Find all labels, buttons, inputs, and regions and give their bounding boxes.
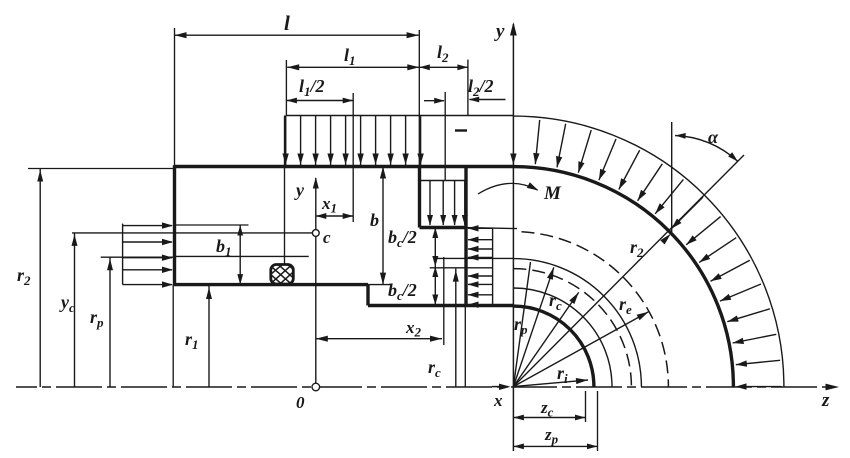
flange edge extension to axis	[172, 285, 174, 387]
steep fan line	[513, 262, 530, 387]
right load arrow 7	[468, 294, 493, 296]
radial load arrow 15	[733, 334, 777, 343]
point c circle	[312, 230, 319, 237]
right load arrow 3	[468, 248, 493, 250]
radial load arrow 16	[736, 360, 780, 364]
notch load arrow 2	[442, 181, 444, 226]
dimension l2/2 right arrow	[470, 99, 506, 101]
right load arrow 5	[468, 275, 493, 277]
svg-text:y: y	[494, 21, 505, 42]
radius ri arrow	[513, 380, 588, 387]
alpha arc arrowheads	[675, 133, 686, 139]
ext line l1 left	[285, 60, 287, 115]
svg-text:α: α	[708, 127, 719, 147]
moment M arc	[478, 183, 538, 194]
left load tails envelope	[122, 224, 124, 285]
dimension r2 left	[39, 169, 41, 388]
svg-text:y: y	[294, 180, 305, 200]
left load arrow 2	[123, 241, 172, 243]
ext line zc	[585, 391, 587, 422]
ext line l1/2 right (and x1)	[352, 93, 354, 222]
point O circle	[312, 383, 320, 391]
ext line right of l dim	[418, 30, 420, 166]
re level straight line	[466, 228, 517, 229]
svg-text:M: M	[543, 183, 562, 204]
small dash mark	[455, 129, 467, 131]
dimension zc	[513, 417, 585, 419]
dimension x2	[316, 338, 442, 340]
dashed arc r=155 (re line)	[522, 232, 669, 387]
radial load arrow 5	[599, 139, 616, 180]
notch left edge	[418, 167, 421, 228]
right load arrow 1	[468, 227, 493, 229]
svg-text:l1/2: l1/2	[299, 76, 325, 99]
radius re arrow	[513, 312, 648, 387]
profile bottom shell line	[368, 304, 514, 307]
svg-text:z: z	[821, 390, 830, 411]
z axis (dash-dot centerline)	[16, 386, 830, 388]
left load arrow 3	[123, 257, 172, 259]
shell right edge	[464, 167, 467, 306]
ext line for b bottom	[368, 284, 391, 286]
radial load arrow 9	[671, 197, 703, 229]
dimension l1	[287, 66, 419, 68]
top load arrow 9	[405, 116, 407, 166]
profile top surface line	[175, 165, 515, 168]
right load arrow 2	[468, 239, 493, 241]
notch load arrow 4	[464, 181, 466, 226]
radial load arrow 14	[727, 309, 770, 322]
ext line b1 top	[176, 224, 249, 226]
ext line left of l dim	[174, 28, 176, 166]
centroid line to c	[72, 232, 313, 234]
top load arrow 8	[390, 116, 392, 166]
ext line x2 right	[443, 257, 445, 345]
dimension l	[175, 34, 419, 36]
local y axis line through c and O	[315, 178, 317, 384]
top load arrow 6	[360, 116, 362, 166]
svg-text:l2/2: l2/2	[468, 76, 494, 99]
notch bottom step	[420, 226, 467, 229]
z axis arrowhead	[826, 384, 840, 391]
top load arrow 7	[375, 116, 377, 166]
dimension bc/2 lower	[434, 267, 436, 306]
top load arrow 1	[285, 116, 287, 166]
notch load arrow 1	[429, 181, 431, 226]
radial load arrow 8	[655, 179, 683, 213]
dimension b	[382, 167, 384, 285]
right load arrow 6	[468, 283, 493, 285]
top load arrow 4	[330, 116, 332, 166]
radius rc arrow	[513, 292, 578, 386]
rp level straight line	[435, 257, 514, 259]
dimension rp left	[109, 257, 111, 387]
x axis arrow at origin	[492, 386, 508, 388]
vertical line through gasket	[284, 116, 286, 265]
dimension rc vertical	[455, 269, 457, 387]
y axis vertical	[512, 24, 514, 451]
right load arrow 4	[468, 256, 493, 258]
profile bottom (flange underside)	[173, 283, 368, 286]
rp level line left	[101, 256, 175, 258]
right load tails envelope	[492, 228, 494, 306]
ext line top for r2 dim	[28, 168, 175, 170]
svg-text:bc/2: bc/2	[388, 280, 417, 303]
radial load arrow 1	[510, 154, 516, 165]
dimension yc	[74, 233, 76, 387]
profile left edge	[173, 165, 176, 286]
outer thin arc r=270.5 (load envelope)	[513, 116, 784, 387]
radius r2 arrow line	[513, 155, 744, 387]
dimension bc/2 upper	[434, 228, 436, 267]
radius rp arrow	[513, 267, 553, 386]
left load arrow 1	[123, 225, 172, 227]
radial load arrow 17	[739, 386, 782, 388]
radial load arrow 11	[699, 238, 736, 263]
rp line inside flange	[176, 255, 309, 257]
dashed arc r=118 (rc centroid line)	[513, 269, 631, 387]
dimension zp	[513, 445, 597, 447]
dimension x1	[316, 215, 353, 217]
radial load arrow 7	[638, 164, 663, 201]
dimension r1	[208, 286, 210, 387]
svg-text:x: x	[493, 391, 503, 410]
radial load arrow 3	[557, 124, 566, 168]
svg-text:l: l	[284, 11, 290, 35]
inner thick arc r=80.5	[513, 306, 594, 387]
ext line l2/2	[444, 92, 446, 180]
y axis arrowhead	[510, 22, 517, 36]
thin arc r=128 (rp line)	[513, 259, 641, 387]
rc level straight line	[430, 267, 493, 269]
outer thick arc r=220	[513, 167, 733, 387]
radial load arrow 4	[578, 130, 591, 173]
top load arrow 5	[345, 116, 347, 166]
profile step down at x=368	[366, 285, 369, 306]
right load arrow 8	[468, 304, 493, 306]
gasket cross-section (crosshatched)	[258, 250, 308, 298]
notch load arrow 3	[454, 181, 456, 226]
top load left edge	[285, 116, 287, 167]
top load arrow 10	[420, 116, 422, 166]
alpha angle arc	[675, 136, 738, 162]
left load arrow 4	[123, 269, 172, 271]
dimension l1/2	[286, 100, 353, 102]
svg-text:0: 0	[296, 393, 305, 412]
radial load arrow 2	[535, 120, 539, 164]
left load arrow 5	[123, 284, 172, 286]
thin arc r=98.6 (r1 surface)	[513, 288, 612, 387]
radial load arrow 6	[619, 150, 640, 189]
radial load arrow 10	[686, 217, 720, 245]
top load arrow 2	[300, 116, 302, 166]
dimension l2/2 left arrow	[424, 100, 444, 102]
ext line zp	[597, 391, 599, 451]
notch load envelope	[420, 180, 467, 182]
radial load arrow 13	[720, 284, 761, 301]
top load envelope line	[286, 115, 514, 117]
dimension l2	[419, 66, 468, 68]
ext line l2 right	[467, 60, 469, 115]
shell edge extension to axis	[464, 306, 466, 388]
svg-text:c: c	[323, 228, 331, 247]
top load arrow 3	[315, 116, 317, 166]
alpha vertical reference line	[671, 122, 673, 232]
svg-text:b: b	[370, 210, 379, 230]
radial load arrow 12	[711, 260, 750, 281]
svg-text:bc/2: bc/2	[388, 227, 417, 250]
dimension b1	[239, 225, 241, 285]
